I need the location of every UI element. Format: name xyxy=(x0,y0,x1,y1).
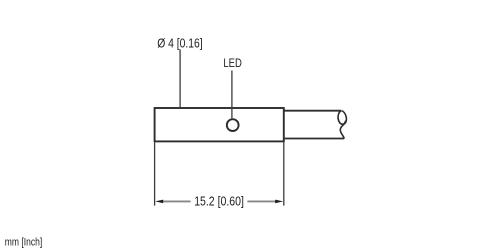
cable break loop xyxy=(338,111,346,125)
extension line right xyxy=(283,142,285,205)
dimension line right segment xyxy=(247,200,276,202)
LED indicator circle xyxy=(227,119,239,131)
svg-text:LED: LED xyxy=(223,56,241,70)
sensor body (barrel) xyxy=(155,108,284,141)
cable top wire xyxy=(284,110,341,112)
leader line for diameter label xyxy=(179,50,181,108)
svg-text:mm [Inch]: mm [Inch] xyxy=(5,237,42,249)
svg-text:Ø 4 [0.16]: Ø 4 [0.16] xyxy=(157,35,202,50)
cable break tail xyxy=(340,121,345,139)
cable bottom wire xyxy=(284,138,344,140)
svg-text:15.2 [0.60]: 15.2 [0.60] xyxy=(194,193,244,208)
dimension line left segment xyxy=(163,200,191,202)
dimension arrow left xyxy=(155,200,163,204)
leader line for LED label xyxy=(231,71,233,119)
extension line left xyxy=(154,142,156,205)
dimension arrow right xyxy=(275,200,283,204)
